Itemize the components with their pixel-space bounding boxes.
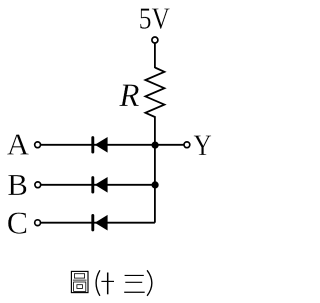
terminal B	[35, 182, 41, 188]
terminal 5V	[152, 37, 158, 43]
caption glyph SHI horizontal	[101, 280, 114, 282]
junction node A-bus	[152, 142, 159, 149]
svg-text:R: R	[118, 78, 139, 114]
diode D1 cathode bar	[91, 138, 94, 152]
resistor R1 zigzag	[145, 68, 164, 118]
terminal C	[35, 220, 41, 226]
caption glyph SAN top stroke	[125, 274, 144, 276]
junction node B-bus	[152, 181, 159, 188]
caption glyph TU bottom box	[74, 282, 86, 291]
diode D2 cathode bar	[91, 178, 94, 192]
diode D2 triangle	[95, 177, 108, 193]
caption glyph SHI vertical	[107, 273, 109, 295]
terminal A	[35, 142, 41, 148]
caption open paren	[96, 270, 100, 296]
terminal Y	[184, 142, 190, 148]
wire 5V stem	[154, 43, 156, 68]
svg-text:C: C	[7, 204, 28, 240]
caption glyph TU outer box	[71, 271, 88, 292]
caption figure number	[71, 270, 151, 296]
caption glyph SAN middle stroke	[125, 281, 142, 283]
diode D3 triangle	[95, 215, 108, 231]
caption close paren	[147, 270, 152, 296]
wire row A	[38, 144, 187, 146]
svg-text:A: A	[7, 127, 30, 162]
caption glyph TU bottom inner mouth	[77, 285, 83, 289]
svg-text:B: B	[7, 167, 28, 202]
diode D3 cathode bar	[91, 216, 94, 230]
caption glyph SAN bottom stroke	[124, 291, 145, 293]
svg-text:Y: Y	[193, 129, 211, 162]
caption glyph TU middle bar	[73, 279, 87, 281]
wire row C	[38, 222, 155, 224]
wire row B	[38, 184, 155, 186]
caption glyph TU inner top mouth	[74, 274, 84, 278]
svg-text:5V: 5V	[139, 1, 171, 36]
wire bus vertical	[154, 116, 156, 223]
diode D1 triangle	[95, 137, 108, 153]
